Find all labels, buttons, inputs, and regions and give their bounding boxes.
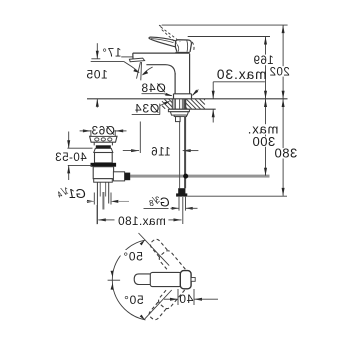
svg-text:17°: 17° xyxy=(101,48,121,60)
svg-text:Ø48: Ø48 xyxy=(141,81,166,95)
svg-text:169: 169 xyxy=(253,55,274,67)
svg-text:max.30: max.30 xyxy=(216,67,267,82)
svg-text:40-53: 40-53 xyxy=(55,152,87,164)
svg-text:105: 105 xyxy=(86,67,108,81)
svg-text:202: 202 xyxy=(269,67,290,79)
svg-text:50°: 50° xyxy=(123,249,143,263)
svg-text:Ø34: Ø34 xyxy=(134,102,159,116)
svg-text:max.180: max.180 xyxy=(118,214,166,228)
svg-text:50°: 50° xyxy=(123,293,143,307)
svg-text:Ø63: Ø63 xyxy=(91,124,115,138)
svg-text:300: 300 xyxy=(252,134,275,149)
svg-text:116: 116 xyxy=(151,147,171,159)
svg-text:40: 40 xyxy=(179,292,194,306)
svg-text:380: 380 xyxy=(274,146,297,161)
